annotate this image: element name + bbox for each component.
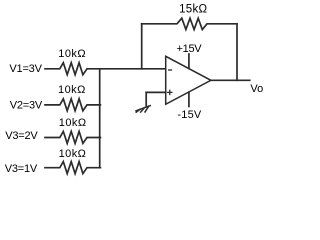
resistor R3 10k with input wire row 3: [45, 131, 100, 143]
svg-text:15kΩ: 15kΩ: [179, 3, 207, 15]
wire feedback right vertical: [236, 24, 238, 81]
resistor R1 10k with input wire row 1: [45, 63, 166, 75]
svg-text:V1=3V: V1=3V: [9, 63, 42, 75]
wire feedback left vertical: [141, 24, 143, 69]
wire non-inverting input: [146, 91, 166, 93]
svg-text:+15V: +15V: [177, 43, 203, 55]
svg-text:10kΩ: 10kΩ: [58, 84, 86, 96]
ground: [136, 92, 150, 112]
resistor R4 10k with input wire row 4: [45, 162, 100, 174]
resistor R2 10k with input wire row 2: [45, 99, 100, 111]
svg-text:-15V: -15V: [177, 109, 201, 121]
wire output: [211, 79, 250, 81]
svg-text:V3=2V: V3=2V: [5, 130, 38, 142]
svg-text:Vo: Vo: [250, 83, 263, 95]
svg-text:10kΩ: 10kΩ: [58, 48, 86, 60]
svg-text:10kΩ: 10kΩ: [59, 117, 87, 129]
svg-text:V3=1V: V3=1V: [5, 163, 38, 175]
wire summing bus vertical: [99, 69, 101, 168]
op-amp U1 minus input marker: [168, 69, 172, 71]
op-amp U1 triangle: [166, 56, 211, 104]
resistor Rf 15k feedback with top wire: [142, 18, 237, 29]
supply +15V stub: [188, 54, 190, 68]
op-amp U1 plus input marker: [167, 90, 173, 96]
svg-text:10kΩ: 10kΩ: [59, 148, 87, 160]
supply -15V stub: [188, 92, 190, 106]
svg-text:V2=3V: V2=3V: [10, 100, 43, 112]
